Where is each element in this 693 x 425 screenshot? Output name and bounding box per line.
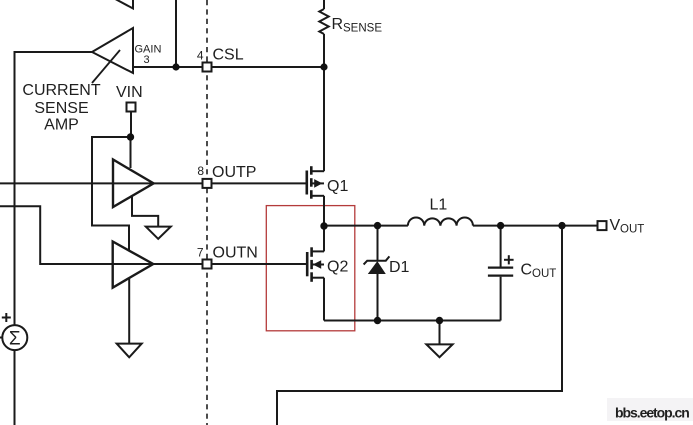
svg-text:OUTN: OUTN xyxy=(213,245,258,262)
svg-text:VIN: VIN xyxy=(116,84,143,101)
svg-text:L1: L1 xyxy=(430,197,448,214)
svg-text:bbs.eetop.cn: bbs.eetop.cn xyxy=(615,405,689,421)
svg-text:OUTP: OUTP xyxy=(212,164,256,181)
svg-text:Σ: Σ xyxy=(9,329,21,350)
svg-text:SENSE: SENSE xyxy=(343,23,382,35)
svg-text:SENSE: SENSE xyxy=(34,100,88,117)
svg-text:D1: D1 xyxy=(389,259,410,276)
svg-text:R: R xyxy=(332,16,344,33)
svg-text:OUT: OUT xyxy=(620,224,644,236)
svg-text:8: 8 xyxy=(197,164,204,178)
svg-text:OUT: OUT xyxy=(532,268,556,280)
svg-text:4: 4 xyxy=(197,49,204,63)
svg-text:3: 3 xyxy=(144,54,150,66)
svg-text:7: 7 xyxy=(197,246,204,260)
svg-text:CURRENT: CURRENT xyxy=(22,82,100,99)
svg-text:CSL: CSL xyxy=(213,47,244,64)
svg-text:C: C xyxy=(521,262,533,279)
svg-text:Q1: Q1 xyxy=(327,178,348,195)
svg-text:AMP: AMP xyxy=(44,117,79,134)
svg-text:Q2: Q2 xyxy=(327,259,348,276)
svg-text:V: V xyxy=(610,217,621,234)
